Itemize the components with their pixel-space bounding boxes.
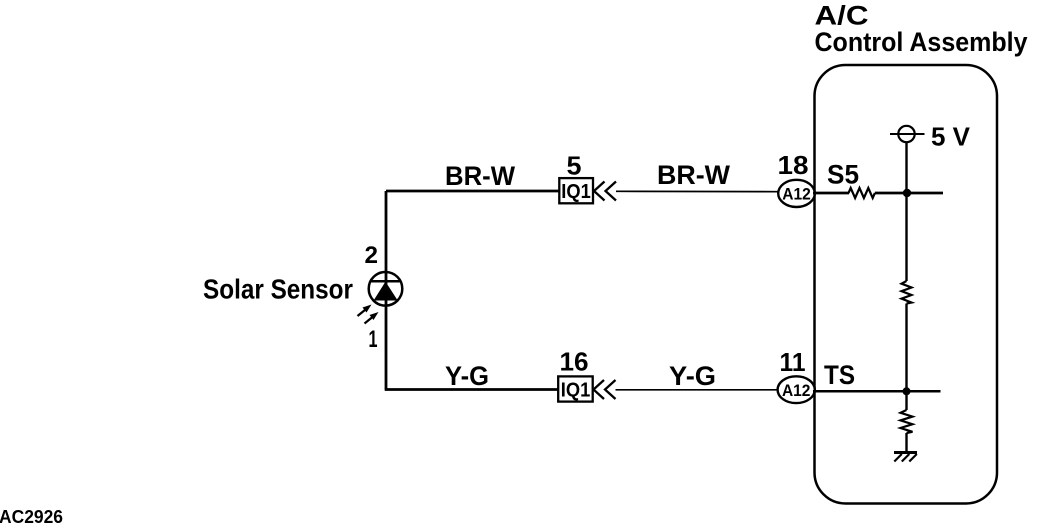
svg-text:TS: TS [824,360,855,390]
connector A12 top [778,180,815,207]
wire: vertical through solar sensor [385,191,388,390]
A/C Control Assembly enclosure box [815,65,998,504]
svg-text:5: 5 [567,151,582,181]
resistor R3 vertical to ground (zigzag) [901,410,913,433]
wire: resistor R3 to ground [905,433,907,452]
svg-text:11: 11 [780,347,806,377]
ground symbol [894,453,917,462]
wire: IQ1 to A12 top (thin) [616,190,779,192]
svg-text:S5: S5 [827,160,859,190]
light arrow 2 into sensor [365,312,379,324]
light arrow 1 into sensor [358,305,372,317]
svg-text:A/C: A/C [815,0,869,30]
svg-text:A12: A12 [782,381,811,400]
resistor R2 vertical (zigzag) [902,281,912,304]
svg-text:1: 1 [369,326,378,353]
wire: IQ1 to A12 bottom (thin) [616,389,779,391]
svg-text:IQ1: IQ1 [561,181,591,203]
chevron joint bottom [594,380,616,399]
wire: resistor to right stub top [875,192,943,195]
wire: Y-G bottom horizontal from corner to IQ1 [385,388,559,391]
svg-text:A12: A12 [782,185,811,204]
connector IQ1 bottom [558,376,593,401]
node junction top [903,189,911,197]
solar sensor photodiode [369,272,403,306]
power 5V terminal [890,126,925,142]
svg-text:18: 18 [778,150,809,180]
svg-text:Y-G: Y-G [669,361,716,391]
connector IQ1 top [559,178,593,203]
svg-text:BR-W: BR-W [657,160,731,190]
connector A12 bottom [778,376,815,403]
svg-text:2: 2 [365,242,379,269]
svg-text:5 V: 5 V [931,122,971,152]
svg-text:Control Assembly: Control Assembly [815,27,1028,57]
resistor R1 series top (zigzag) [849,188,875,198]
node junction bottom [903,387,911,395]
svg-text:IQ1: IQ1 [561,379,591,401]
svg-text:Solar Sensor: Solar Sensor [203,274,353,305]
svg-text:BR-W: BR-W [445,161,515,191]
wire: A12 to resistor inside top [813,192,849,195]
chevron joint top [594,182,616,201]
svg-text:16: 16 [560,347,589,377]
wire: resistor R2 to bottom junction [905,304,907,411]
wire: A12 to right stub bottom [813,390,941,393]
svg-text:AC2926: AC2926 [0,507,63,527]
wire: BR-W top horizontal from corner to IQ1 [386,190,560,193]
svg-text:Y-G: Y-G [445,361,489,391]
wire: 5V vertical down to junction and resistor [905,142,907,281]
